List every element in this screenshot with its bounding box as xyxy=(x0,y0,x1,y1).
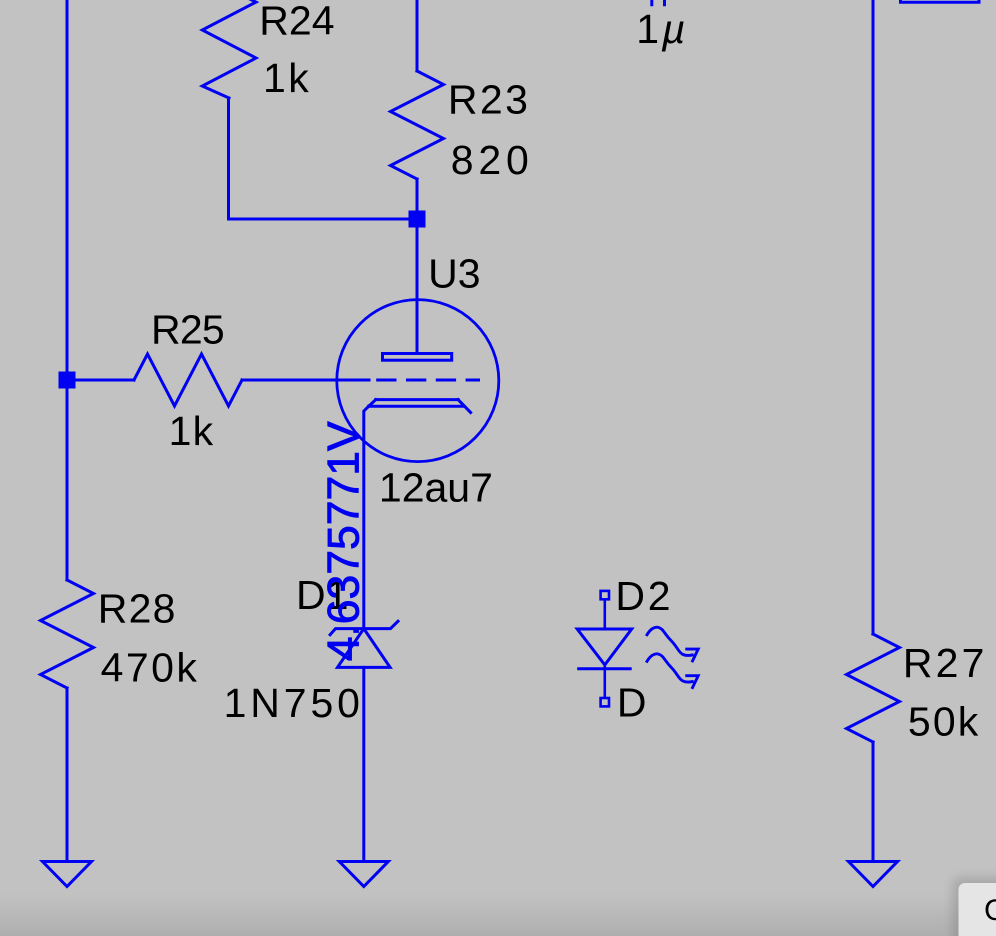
svg-text:D: D xyxy=(617,680,647,726)
svg-text:820: 820 xyxy=(451,137,534,183)
svg-text:R28: R28 xyxy=(98,586,177,632)
svg-text:R24: R24 xyxy=(259,0,334,43)
svg-text:470k: 470k xyxy=(101,645,200,691)
svg-text:R27: R27 xyxy=(903,640,988,686)
svg-text:D2: D2 xyxy=(615,573,673,619)
svg-text:50k: 50k xyxy=(908,699,981,745)
svg-text:1µ: 1µ xyxy=(636,6,688,52)
svg-text:1N750: 1N750 xyxy=(224,680,364,726)
svg-text:U3: U3 xyxy=(428,251,480,297)
svg-text:1k: 1k xyxy=(263,55,311,101)
svg-text:4.6375771V: 4.6375771V xyxy=(320,421,369,661)
svg-text:C: C xyxy=(984,894,996,927)
svg-text:R25: R25 xyxy=(151,307,224,353)
svg-text:1k: 1k xyxy=(169,408,215,454)
svg-text:12au7: 12au7 xyxy=(379,465,493,511)
svg-text:R23: R23 xyxy=(448,76,530,122)
